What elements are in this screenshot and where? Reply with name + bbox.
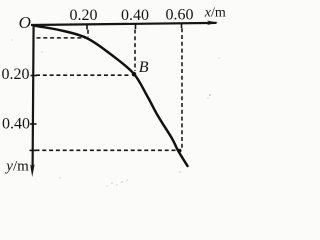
svg-text:B: B	[139, 59, 149, 76]
x-axis arrowhead	[207, 21, 218, 26]
y-axis tick 0.20	[31, 75, 38, 77]
svg-text:0.20: 0.20	[2, 66, 30, 83]
dashed horizontal line at y=0.20	[36, 74, 131, 76]
scan speckles	[11, 39, 219, 186]
svg-text:x/m: x/m	[204, 6, 226, 21]
svg-text:0.40: 0.40	[2, 115, 30, 132]
y-axis arrowhead	[30, 164, 35, 177]
dashed horizontal line at y=0.05	[37, 37, 88, 39]
y-axis	[33, 24, 34, 167]
x-axis tick 0.40	[135, 25, 137, 30]
svg-text:0.60: 0.60	[166, 7, 194, 24]
svg-text:0.40: 0.40	[121, 7, 149, 24]
dot at curve/0.60 intersection	[178, 149, 182, 153]
y-axis tick 0.40	[30, 123, 37, 125]
dashed vertical line at x=0.40	[134, 30, 136, 72]
point B dot	[132, 72, 137, 77]
svg-text:0.20: 0.20	[70, 7, 98, 24]
dashed horizontal line at y=0.45	[36, 149, 178, 151]
trajectory curve	[34, 26, 188, 167]
y-axis tick at 0.45	[30, 149, 37, 151]
dashed vertical line at x=0.60	[181, 28, 183, 148]
x-axis tick 0.60	[181, 24, 183, 29]
dashed vertical line at x=0.20	[87, 30, 89, 37]
svg-text:y/m: y/m	[4, 159, 29, 175]
x-axis	[31, 23, 217, 25]
svg-text:O: O	[19, 13, 31, 32]
x-axis tick 0.20	[86, 25, 88, 30]
